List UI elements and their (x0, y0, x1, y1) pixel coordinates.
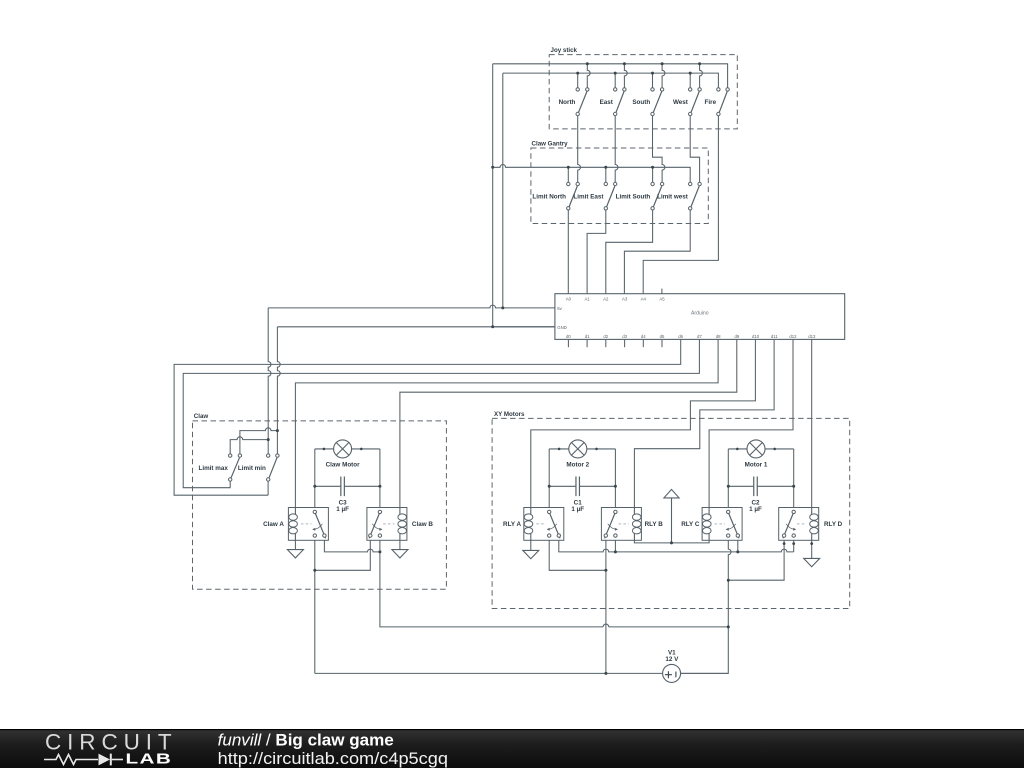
svg-text:South: South (632, 99, 650, 106)
wire Arduino d11 to RLY B coil (634, 339, 774, 507)
footer bar (0, 729, 1024, 768)
wire Arduino A5 stub (661, 289, 663, 294)
wire Arduino d5 stub (661, 339, 663, 347)
svg-text:12 V: 12 V (665, 656, 679, 663)
wire East common to Limit East (hop over gantry rail) (615, 116, 618, 183)
svg-text:RLY A: RLY A (503, 521, 521, 528)
svg-text:d0: d0 (566, 334, 571, 339)
wire Arduino d2 stub (605, 339, 607, 347)
supply arrow node (664, 489, 679, 543)
svg-text:Motor 2: Motor 2 (566, 462, 589, 469)
wire Limit East common to Arduino A1 (587, 210, 606, 294)
svg-text:Claw A: Claw A (263, 521, 284, 528)
wire Limit max left terminal to 5v drop (hop) (230, 437, 268, 454)
wire V1 negative rail (315, 672, 663, 674)
capacitor C2 (728, 477, 793, 514)
relay Claw B (367, 507, 433, 541)
ground ground Claw A (287, 550, 303, 558)
switch SW Limit East (573, 182, 616, 210)
svg-text:1 µF: 1 µF (571, 506, 584, 513)
relay RLY B (601, 507, 663, 541)
wire Arduino d1 stub (586, 339, 588, 347)
svg-text:Arduino: Arduino (691, 310, 709, 316)
wire Fire common to Arduino A4 (643, 116, 718, 294)
svg-text:d2: d2 (603, 334, 608, 339)
switch SW West (673, 88, 701, 116)
svg-text:A1: A1 (584, 297, 590, 302)
svg-text:d5: d5 (660, 334, 665, 339)
wire RLY C bottom-left down to V1 positive (hop over BR bus) (681, 537, 732, 673)
svg-text:Limit East: Limit East (573, 193, 604, 200)
wire Limit South common to Arduino A2 (606, 210, 653, 294)
svg-text:d4: d4 (641, 334, 646, 339)
wire V1 positive lead (681, 672, 729, 674)
wire Limit min common stub (267, 481, 269, 495)
svg-text:http://circuitlab.com/c4p5cgq: http://circuitlab.com/c4p5cgq (218, 748, 448, 767)
wire joystick switch 3 right terminal stub (hop over 5v rail) (662, 64, 665, 88)
switch SW Limit west (657, 182, 701, 210)
svg-text:XY Motors: XY Motors (494, 411, 525, 418)
wire Arduino d6 to Limit min common (174, 339, 681, 495)
wire Claw Motor left lead to Claw A common (314, 449, 316, 510)
svg-text:RLY B: RLY B (645, 521, 664, 528)
wire RLY B coil to RLY C coil (supply link) (634, 540, 709, 543)
wire GND riser to Arduino GND pin (493, 64, 555, 327)
wire Limit max right terminal to GND drop (hop) (240, 428, 278, 454)
wire RLY B bottom-left down to V1 negative rail (605, 537, 607, 673)
wire RLY D bottom-left to V1 positive net (728, 537, 784, 580)
svg-text:d8: d8 (716, 334, 721, 339)
wire gantry GND rail (493, 165, 691, 183)
switch SW Fire (705, 88, 730, 116)
Joy stick section box (549, 47, 737, 129)
svg-text:d6: d6 (678, 334, 683, 339)
svg-text:d11: d11 (771, 334, 778, 339)
svg-text:Limit South: Limit South (616, 193, 651, 200)
svg-text:East: East (600, 99, 614, 106)
voltage source V1 12V (663, 649, 681, 682)
wire Motor 2 right lead to RLY B common (614, 449, 616, 510)
switch SW Limit South (616, 182, 664, 210)
wire joystick switch 2 left terminal stub (614, 73, 616, 88)
svg-text:1 µF: 1 µF (749, 506, 762, 513)
wire Motor 1 right lead to RLY D common (793, 449, 795, 510)
svg-text:Limit max: Limit max (198, 465, 228, 472)
wire GND drop to Limit min right terminal (hops over d6,d7 wires) (277, 327, 280, 454)
svg-text:d1: d1 (585, 334, 590, 339)
svg-text:A3: A3 (622, 297, 628, 302)
wire joystick switch 1 right terminal stub (hop over 5v rail) (587, 64, 590, 88)
svg-text:Motor 1: Motor 1 (745, 462, 768, 469)
wire RLY A coil to ground (530, 540, 532, 550)
svg-text:LAB: LAB (126, 750, 173, 767)
svg-text:d12: d12 (789, 334, 797, 339)
lamp Motor 1 (728, 440, 793, 469)
switch SW Limit min (238, 454, 279, 481)
wire GND rail (joystick top rail) to Fire right terminal (493, 64, 728, 88)
wire joystick switch 2 right terminal stub (hop over 5v rail) (624, 64, 627, 88)
wire Arduino d10 to RLY A coil (531, 339, 756, 507)
wire 5v drop to Limit min left terminal (hops over d6,d7 wires) (268, 308, 271, 454)
svg-text:Claw B: Claw B (412, 521, 433, 528)
ground ground RLY D (804, 558, 820, 566)
svg-text:Fire: Fire (705, 99, 717, 106)
svg-text:d3: d3 (622, 334, 627, 339)
svg-text:Claw Motor: Claw Motor (326, 462, 360, 469)
wire Claw A bottom-left down to V1 negative rail (314, 537, 316, 673)
wire South common to Limit South (jog, hop over gantry rail) (653, 116, 665, 183)
ground ground Claw B (392, 550, 408, 558)
svg-text:Limit west: Limit west (657, 193, 689, 200)
wire Claw A coil to ground (294, 540, 296, 549)
wire Arduino d3 stub (624, 339, 626, 347)
relay RLY A (503, 507, 564, 541)
relay Claw A (263, 507, 328, 541)
svg-text:North: North (559, 99, 576, 106)
relay RLY D (779, 507, 843, 541)
wire RLY C bottom-right stub (737, 537, 739, 552)
switch SW Limit North (532, 182, 579, 210)
wire Motor 2 left lead to RLY A common (548, 449, 550, 510)
wire 5v riser to 5v node (502, 73, 504, 308)
svg-text:A2: A2 (603, 297, 609, 302)
wire GND horizontal to Arduino GND pin (277, 326, 555, 328)
wire RLY A bottom-left to V1 negative net (549, 537, 606, 570)
wire RLY D coil to ground (811, 540, 813, 558)
svg-text:funvill / Big claw game: funvill / Big claw game (218, 731, 394, 750)
svg-text:d10: d10 (752, 334, 760, 339)
switch SW Limit max (198, 454, 241, 481)
svg-text:Limit North: Limit North (532, 193, 566, 200)
wire Claw A bottom-right to Claw B bottom-right (hop) (324, 537, 380, 552)
CircuitLab logo (44, 729, 178, 766)
svg-text:RLY C: RLY C (681, 521, 700, 528)
wire Arduino d4 stub (642, 339, 644, 347)
svg-text:d9: d9 (735, 334, 740, 339)
svg-text:1 µF: 1 µF (336, 506, 349, 513)
lamp Claw Motor (315, 440, 380, 469)
wire Arduino d7 to Limit max common (183, 339, 699, 487)
svg-text:A5: A5 (659, 297, 665, 302)
wire joystick switch 1 left terminal stub (577, 73, 579, 88)
capacitor C1 (549, 477, 615, 514)
wire Arduino d13 to RLY D coil (811, 339, 813, 507)
wire joystick switch 3 left terminal stub (652, 73, 654, 88)
footer text (218, 731, 448, 768)
wire hop over V1 negative drop (603, 624, 609, 627)
svg-text:Limit min: Limit min (238, 465, 266, 472)
Arduino U1 (555, 294, 845, 340)
wire Limit North common to Arduino A0 (567, 210, 569, 294)
wire gantry switch 1 left terminal stub (567, 167, 569, 182)
svg-text:Claw Gantry: Claw Gantry (532, 140, 569, 147)
svg-text:GND: GND (557, 325, 567, 330)
svg-text:A0: A0 (566, 297, 572, 302)
wire Claw Motor right lead to Claw B common (379, 449, 381, 510)
wire Arduino d9 to Claw B relay coil (400, 339, 737, 507)
wire relay bottom-right bus RLY A-B-C-D (hops) (559, 537, 794, 552)
wire gantry switch 3 left terminal stub (652, 167, 654, 182)
wire Arduino d8 to Claw A relay coil (295, 339, 718, 507)
svg-text:d13: d13 (808, 334, 816, 339)
junction dots (586, 62, 589, 65)
wire 5v horizontal to Arduino 5v pin (hop over GND riser) (268, 305, 555, 308)
wire Claw B bottom-left to Claw A bottom-left net (315, 537, 371, 570)
wire Arduino d0 stub (567, 339, 569, 347)
wire Arduino d12 to RLY C coil (709, 339, 793, 507)
wire RLY D bottom-right stub (793, 537, 795, 552)
switch SW East (600, 88, 627, 116)
svg-text:Claw: Claw (194, 413, 209, 420)
relay RLY C (681, 507, 742, 541)
wire joystick switch 4 left terminal stub (689, 73, 691, 88)
wire gantry switch 2 left terminal stub (605, 167, 607, 182)
wire Motor 1 left lead to RLY C common (727, 449, 729, 510)
wire Claw B bottom-right to V1 positive (hop drawn separately) (380, 537, 728, 627)
svg-text:Joy stick: Joy stick (551, 47, 578, 54)
wire 5v rail (joystick second rail) to Fire left terminal (503, 73, 719, 88)
svg-text:d7: d7 (697, 334, 702, 339)
wire Limit west common to Arduino A3 (624, 210, 690, 294)
Claw section box (193, 413, 447, 589)
wire joystick switch 4 right terminal stub (hop over 5v rail) (700, 64, 703, 88)
wire RLY B bottom-right stub (614, 537, 616, 552)
lamp Motor 2 (549, 440, 615, 469)
switch SW South (632, 88, 663, 116)
capacitor C3 (315, 477, 380, 514)
XY Motors section box (492, 411, 850, 608)
switch SW North (559, 88, 589, 116)
wire Claw B coil to ground (399, 540, 401, 549)
svg-text:West: West (673, 99, 689, 106)
ground ground RLY A (523, 550, 539, 558)
svg-text:RLY D: RLY D (824, 521, 843, 528)
wire North common to Limit North (hop over gantry rail) (578, 116, 581, 183)
wire West common to Limit west (690, 116, 699, 183)
svg-text:A4: A4 (641, 297, 647, 302)
Claw Gantry section box (531, 140, 708, 223)
